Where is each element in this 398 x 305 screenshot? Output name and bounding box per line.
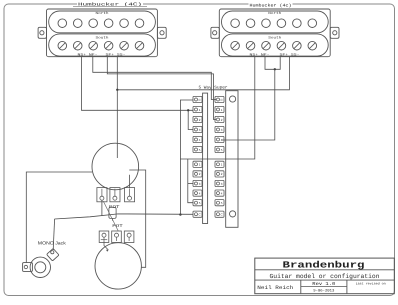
pot P1 lug box 1 [97,188,107,202]
humbucker right label [249,2,293,7]
switch mounting hole top [230,96,236,102]
switch terminal R-top-5 [215,146,224,152]
svg-text:POT: POT [112,224,123,229]
pot P2 lug box 2 [112,231,122,243]
switch left pole bar [203,93,208,223]
wire ground bus to L-bot C [55,214,194,219]
wire branch bus to L-bot 3 and 5 [188,159,193,203]
svg-text:North: North [268,11,281,15]
mono jack body [30,257,50,277]
wire pot1 left casing to jack sleeve [26,172,92,263]
pot P1 lug box 2 [110,188,120,202]
svg-text:MONO Jack: MONO Jack [38,240,67,245]
switch terminal L-bot-1 [193,161,202,167]
wire ground bus to jack tip [53,219,54,250]
svg-text:South: South [268,36,281,40]
switch terminal R-bot-4 [215,190,224,196]
humbucker left body [38,9,166,57]
switch terminal L-top-2 [193,116,202,122]
switch terminal L-top-3 [193,126,202,132]
wire SS- tap down to pot1 casing [116,90,118,158]
title block divider 1 [255,269,394,271]
junction dot node C [274,68,276,70]
wire left SF+ to switch R-top 2 [107,57,216,120]
title block divider 2 [255,279,394,281]
junction dot node D [179,213,181,215]
switch terminal L-bot-5 [193,200,202,206]
svg-text:Brandenburg: Brandenburg [283,259,365,270]
switch terminal R-top-1 [215,106,224,112]
title block frame [255,258,394,294]
svg-text:North: North [96,11,109,15]
wire pot P1 lug3 to casing [129,175,131,188]
svg-text:Neil Reich: Neil Reich [257,285,293,291]
switch terminal R-bot-5 [215,200,224,206]
svg-text:POT: POT [109,205,120,210]
switch terminal L-bot-C [193,211,202,217]
wire right NF- series link [265,57,280,70]
title block vertical divider 1 [300,280,302,294]
switch terminal R-top-3 [215,126,224,132]
switch terminal R-bot-2 [215,171,224,177]
switch terminal R-top-4 [215,136,224,142]
wire left NF- to switch R-top C [93,57,216,100]
svg-text:NS+ NF-: NS+ NF- [250,52,270,56]
wire left SS- down and across to right SS- [116,57,118,90]
wire pot P2 lug1 bent to casing [104,241,108,250]
capacitor C1 [109,207,116,218]
switch terminal L-top-4 [193,136,202,142]
switch terminal R-bot-C [215,211,224,217]
leader line POT labels [103,201,118,231]
mono jack tip lug [47,248,59,260]
svg-text:SF+ SS-: SF+ SS- [280,52,300,56]
wire left NS+ to switch L1/L3 [82,57,194,111]
svg-text:SF+ SS-: SF+ SS- [106,52,126,56]
pot P1 body [92,143,139,190]
switch terminal L-bot-3 [193,180,202,186]
svg-text:Guitar model or configuration: Guitar model or configuration [270,273,380,280]
pot P2 lug box 3 [124,231,134,243]
junction dot node B [116,89,118,91]
mono jack sleeve lug [23,263,33,272]
pot P2 body [95,243,141,289]
switch terminal L-bot-4 [193,190,202,196]
switch terminal L-top-1 [193,106,202,112]
switch terminal L-top-C [193,96,202,102]
pot P2 lug box 1 [99,231,109,243]
junction dot node A [187,109,189,111]
wire pot1 casing to pot2 casing [129,170,145,267]
humbucker right body [211,9,339,57]
wire right NS+ to switch common bus [180,57,254,159]
switch terminal R-bot-1 [215,161,224,167]
switch terminal L-top-5 [193,146,202,152]
switch terminal L-bot-2 [193,171,202,177]
wire branch L1 to L3 [188,110,193,129]
left pickup label underline [73,5,147,7]
switch mounting hole bottom [230,211,236,217]
pot P1 lug box 3 [125,188,135,202]
title block vertical divider 2 [346,280,348,294]
title block rev divider [301,285,347,287]
svg-text:9-06-2013: 9-06-2013 [313,289,335,294]
switch terminal R-top-C [215,96,224,102]
svg-text:NS+ NF-: NS+ NF- [78,52,98,56]
svg-text:Rev 1.0: Rev 1.0 [312,281,335,287]
wire pot1 lug1 to ground bus [101,200,103,216]
svg-text:Last revised on: Last revised on [356,281,386,285]
switch right body plate [226,91,238,228]
svg-text:South: South [96,36,109,40]
wire switch common bus vertical [180,100,193,215]
switch terminal R-bot-3 [215,180,224,186]
wire series tap to switch R-top 4 [222,69,275,140]
switch terminal R-top-2 [215,116,224,122]
humbucker left label [77,1,143,6]
